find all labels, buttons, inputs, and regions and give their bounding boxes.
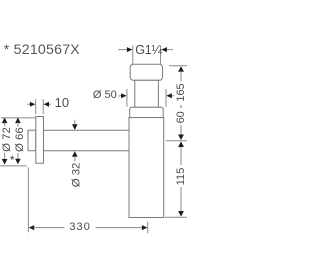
svg-text:* 5210567X: * 5210567X xyxy=(4,42,80,58)
svg-text:G1¼: G1¼ xyxy=(135,43,162,57)
svg-text:330: 330 xyxy=(69,221,91,233)
dimension Ø66 up arrow xyxy=(15,118,21,127)
dimension 60-165 top extension line xyxy=(169,65,187,67)
flange bottom extension line xyxy=(0,165,27,167)
horizontal waste pipe top line xyxy=(44,129,130,131)
nut (union nut at sink connection) xyxy=(130,64,162,80)
dimension Ø72 up arrow xyxy=(2,118,8,127)
bottle bottom extension line xyxy=(165,216,187,218)
dimension 115 up arrow xyxy=(178,141,184,165)
dimension 60-165 down arrow xyxy=(178,125,184,140)
dimension Ø66 down arrow xyxy=(15,153,21,164)
svg-text:Ø 66: Ø 66 xyxy=(14,127,26,152)
waste centerline extension line xyxy=(166,140,187,142)
dimension 330 right arrow xyxy=(96,225,148,230)
dimension Ø32 upper arrow (points down to pipe top) xyxy=(72,120,78,130)
dimension 10 right arrow xyxy=(44,102,51,107)
trap bottle body xyxy=(129,118,164,218)
dimension 330 left arrow xyxy=(29,225,65,230)
svg-text:Ø 50: Ø 50 xyxy=(93,89,117,101)
dimension Ø50 left arrow xyxy=(119,93,127,98)
dimension 10 extension line left xyxy=(35,99,37,114)
dimension G1 1/4 right arrow xyxy=(161,47,173,52)
svg-text:*: * xyxy=(10,153,15,167)
dimension Ø50 extension line left xyxy=(126,89,128,107)
dimension G1 1/4 left arrow xyxy=(118,47,132,52)
dimension 10 left arrow xyxy=(27,102,35,107)
dimension G1 1/4 extension line right xyxy=(160,45,162,64)
svg-text:60 - 165: 60 - 165 xyxy=(175,83,187,123)
flange top extension line xyxy=(1,117,36,119)
dimension G1 1/4 extension line left xyxy=(132,45,134,64)
dimension 60-165 up arrow xyxy=(178,66,184,81)
vertical inlet pipe xyxy=(135,80,159,107)
svg-text:Ø 32: Ø 32 xyxy=(71,163,83,188)
dimension Ø50 extension line right xyxy=(165,89,167,107)
cap collar of trap bottle xyxy=(130,107,164,117)
dimension 115 down arrow xyxy=(178,187,184,217)
dimension 330 left extension line (wall end of pipe) xyxy=(27,167,29,232)
horizontal waste pipe bottom line xyxy=(44,150,130,152)
dimension 10 extension line right xyxy=(42,99,44,114)
wall flange escutcheon xyxy=(36,117,44,164)
dimension Ø50 right arrow xyxy=(166,93,174,98)
dimension Ø32 lower arrow (points up to pipe bottom) xyxy=(72,151,78,161)
wall pipe stub xyxy=(28,130,36,151)
svg-text:10: 10 xyxy=(55,95,69,110)
dimension 330 right extension line (bottle centerline) xyxy=(147,222,149,234)
svg-text:Ø 72: Ø 72 xyxy=(1,127,13,152)
dimension Ø72 down arrow xyxy=(2,153,8,165)
svg-text:115: 115 xyxy=(175,167,187,185)
